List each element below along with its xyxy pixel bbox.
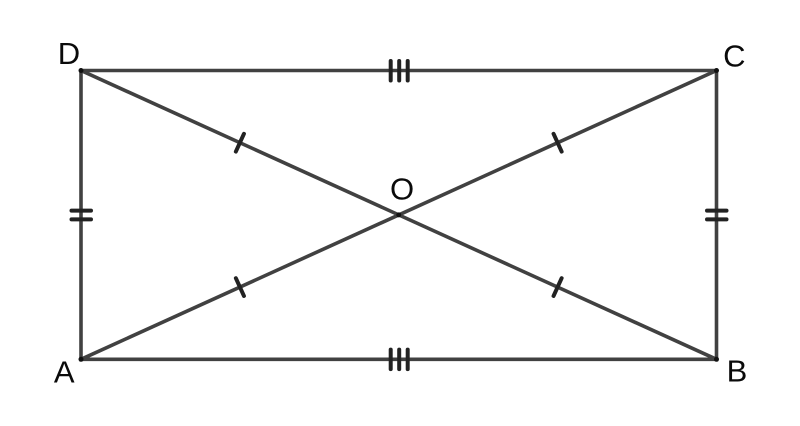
side AB (bottom): [81, 357, 717, 361]
vertex dot B: [714, 357, 719, 362]
svg-text:B: B: [727, 354, 748, 389]
vertex dot C: [714, 68, 719, 73]
triple tick marks on side AB: [391, 350, 408, 370]
svg-text:A: A: [54, 354, 75, 389]
diagonal DB: [81, 71, 717, 360]
tick mark on segment OB: [554, 278, 562, 296]
vertex dot D: [79, 68, 84, 73]
diagonal AC: [81, 71, 717, 360]
svg-text:C: C: [723, 39, 745, 74]
double tick marks on side AD: [72, 211, 92, 220]
tick mark on segment DO: [236, 134, 244, 152]
side AD (left): [79, 71, 83, 360]
side DC (top): [81, 69, 717, 73]
tick mark on segment OC: [554, 134, 562, 152]
tick mark on segment AO: [236, 278, 244, 296]
triple tick marks on side DC: [391, 61, 408, 81]
side BC (right): [715, 71, 719, 360]
double tick marks on side BC: [707, 211, 727, 220]
intersection dot O: [396, 212, 401, 217]
svg-text:D: D: [58, 36, 80, 71]
vertex dot A: [79, 357, 84, 362]
svg-text:O: O: [390, 171, 414, 206]
